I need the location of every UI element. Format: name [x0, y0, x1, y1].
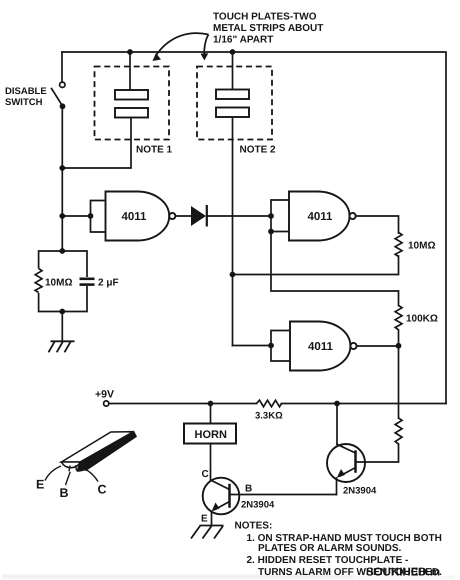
svg-text:10MΩ: 10MΩ: [408, 240, 435, 251]
svg-text:2N3904: 2N3904: [343, 486, 377, 497]
svg-text:+9V: +9V: [95, 389, 114, 401]
svg-text:C: C: [98, 483, 107, 497]
svg-text:SWITCH: SWITCH: [5, 97, 43, 108]
svg-text:10MΩ: 10MΩ: [45, 278, 72, 289]
svg-text:100KΩ: 100KΩ: [406, 314, 438, 325]
svg-text:4011: 4011: [122, 211, 148, 223]
svg-text:PLATES OR ALARM SOUNDS.: PLATES OR ALARM SOUNDS.: [258, 543, 402, 554]
svg-text:1/16" APART: 1/16" APART: [213, 35, 273, 46]
svg-text:HORN: HORN: [195, 429, 227, 441]
svg-text:B: B: [60, 486, 69, 500]
svg-text:E: E: [201, 514, 208, 525]
svg-text:NOTES:: NOTES:: [235, 521, 273, 532]
svg-text:DISABLE: DISABLE: [5, 86, 47, 97]
svg-text:METAL STRIPS ABOUT: METAL STRIPS ABOUT: [213, 23, 323, 34]
svg-text:B: B: [245, 484, 252, 495]
svg-text:3.3KΩ: 3.3KΩ: [255, 411, 283, 422]
svg-text:4011: 4011: [308, 211, 334, 223]
svg-text:NOTE 2: NOTE 2: [240, 145, 277, 156]
svg-text:2 μF: 2 μF: [98, 278, 119, 289]
svg-text:C: C: [202, 469, 209, 480]
svg-text:E: E: [36, 478, 44, 492]
svg-text:2. HIDDEN RESET TOUCHPLATE -: 2. HIDDEN RESET TOUCHPLATE -: [247, 555, 409, 566]
svg-text:TOUCH PLATES-TWO: TOUCH PLATES-TWO: [213, 12, 317, 23]
svg-text:4011: 4011: [308, 341, 334, 353]
svg-text:2N3904: 2N3904: [241, 500, 275, 511]
svg-text:NOTE 1: NOTE 1: [136, 145, 173, 156]
